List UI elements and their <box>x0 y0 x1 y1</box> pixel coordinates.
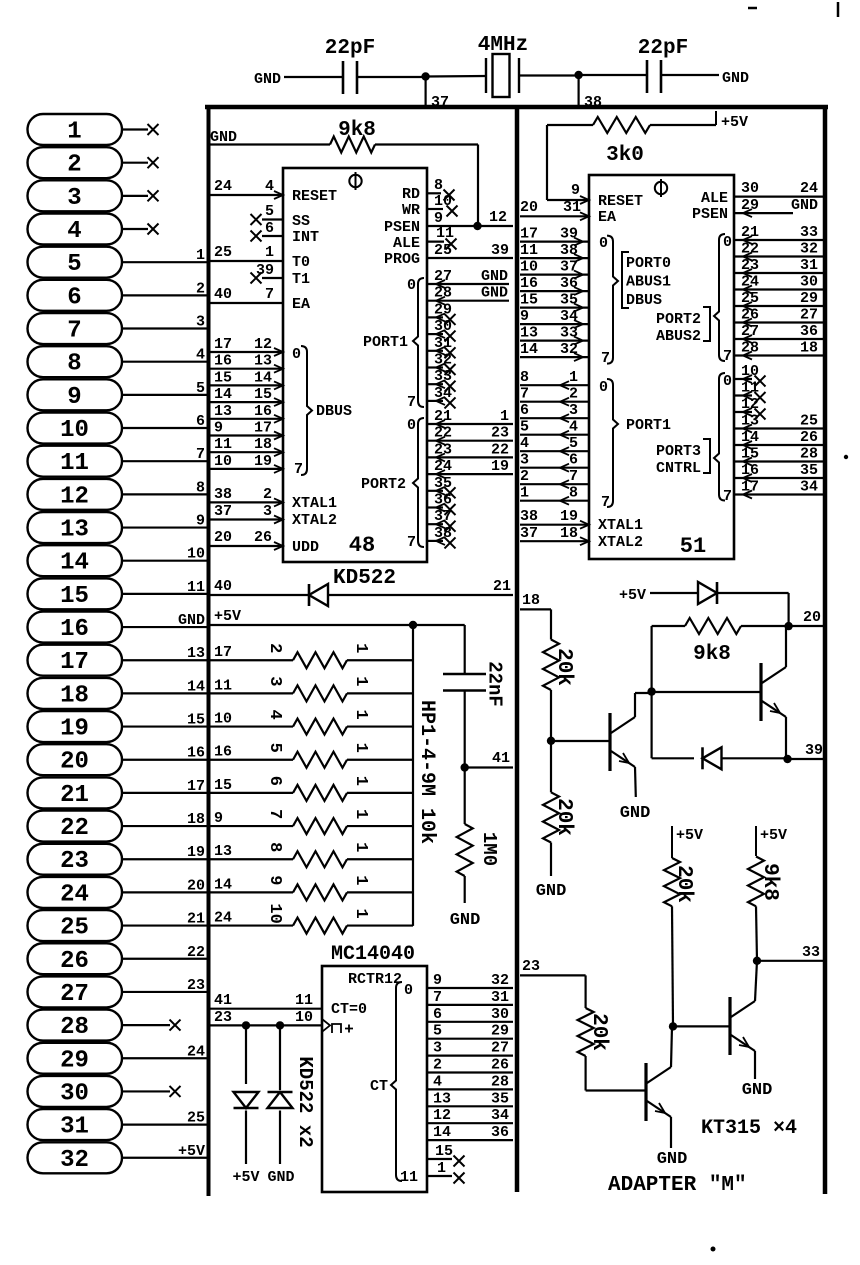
stub U1 RD pin8 n/c <box>427 192 441 194</box>
svg-text:40: 40 <box>214 286 232 303</box>
svg-text:RESET: RESET <box>292 188 337 205</box>
wire R9 to node 33 <box>756 906 757 961</box>
wire node37 to crystal <box>426 75 486 78</box>
IC U1 PORT1 brace <box>413 278 424 407</box>
connector XS1 pin 15 <box>28 578 208 610</box>
wire +5V rail to C3 <box>413 624 465 626</box>
resistor RN1.1 10k <box>293 652 347 668</box>
junction Q1 collector node <box>647 687 655 695</box>
wire node41 to separator <box>465 766 513 768</box>
svg-text:4: 4 <box>433 1073 442 1090</box>
svg-text:18: 18 <box>522 592 540 609</box>
wire U2 PORT3.5 pin15 to net28 <box>734 460 823 462</box>
svg-text:14: 14 <box>214 876 232 893</box>
svg-text:7: 7 <box>723 348 732 365</box>
wire net11 to RN1 pin 3 <box>210 692 293 694</box>
svg-text:PSEN: PSEN <box>384 219 420 236</box>
svg-text:RCTR12: RCTR12 <box>348 971 402 988</box>
wire R5 to GND <box>550 843 552 877</box>
resistor RN1.3 10k <box>293 719 347 735</box>
connector XS1 pin 19 <box>28 711 208 743</box>
svg-text:9k8: 9k8 <box>758 863 781 901</box>
svg-text:39: 39 <box>560 226 578 243</box>
svg-text:GND: GND <box>178 612 205 629</box>
stub U1 T1 pin39 n/c <box>262 277 283 279</box>
svg-text:10: 10 <box>520 259 538 276</box>
svg-text:PSEN: PSEN <box>692 206 728 223</box>
stub U1 WR pin10 n/c <box>427 208 443 210</box>
stub U3 CT.10 pin15 n/c <box>427 1158 452 1160</box>
connector XS1 pin 23 <box>28 844 208 876</box>
junction PSEN/9k8 node <box>473 222 481 230</box>
resistor R4 20k <box>543 640 559 691</box>
svg-text:21: 21 <box>493 578 511 595</box>
svg-text:6: 6 <box>433 1006 442 1023</box>
connector XS1 pin 18 <box>28 678 208 710</box>
svg-text:8: 8 <box>196 479 205 496</box>
svg-text:28: 28 <box>60 1014 89 1041</box>
svg-text:20k: 20k <box>672 865 695 903</box>
wire net14 to U2 PORT0.7 pin32 <box>520 356 589 358</box>
svg-text:36: 36 <box>434 492 452 509</box>
svg-text:15: 15 <box>435 1143 453 1160</box>
wire C2 to GND <box>661 74 719 76</box>
svg-text:6: 6 <box>196 413 205 430</box>
stub U1 PORT2.6 pin37 n/c <box>427 523 443 525</box>
wire net20 to U2 EA pin31 <box>520 215 589 217</box>
svg-text:30: 30 <box>60 1080 89 1107</box>
svg-text:7: 7 <box>265 809 284 819</box>
wire U3 CT.7 pin13 to net35 <box>427 1105 513 1107</box>
wire R4 to base node <box>550 690 552 741</box>
diode VD1 KD522 <box>309 584 328 606</box>
svg-text:21: 21 <box>434 408 452 425</box>
wire +5V rail <box>210 624 413 626</box>
svg-text:CT=0: CT=0 <box>331 1001 367 1018</box>
svg-text:17: 17 <box>520 226 538 243</box>
svg-text:0: 0 <box>407 277 416 294</box>
svg-text:23: 23 <box>187 977 205 994</box>
svg-text:25: 25 <box>60 915 89 942</box>
connector XS1 pin 24 <box>28 877 208 909</box>
svg-text:20: 20 <box>60 749 89 776</box>
transistor Q2 KT315 <box>759 663 762 721</box>
svg-text:36: 36 <box>800 323 818 340</box>
svg-text:MC14040: MC14040 <box>331 943 415 966</box>
svg-text:27: 27 <box>60 981 89 1008</box>
svg-text:11: 11 <box>187 579 205 596</box>
svg-text:18: 18 <box>60 682 89 709</box>
frame left border <box>207 105 211 1196</box>
wire Q1 emitter down <box>634 767 637 797</box>
scan speck bottom <box>711 1247 716 1252</box>
wire RN1.3 to common bus <box>347 725 413 727</box>
wire net14 to U1 DBUS3 pin15 <box>210 401 283 403</box>
svg-text:36: 36 <box>560 275 578 292</box>
svg-text:16: 16 <box>60 616 89 643</box>
IC U2 PORT2 brace <box>714 234 725 361</box>
wire RN1.7 to common bus <box>347 858 413 860</box>
svg-text:1: 1 <box>67 119 81 146</box>
svg-text:24: 24 <box>187 1043 205 1060</box>
wire U3 CT.6 pin4 to net28 <box>427 1088 513 1090</box>
svg-text:13: 13 <box>520 325 538 342</box>
svg-text:30: 30 <box>741 180 759 197</box>
connector XS1 pin 29 <box>28 1043 208 1075</box>
svg-text:9k8: 9k8 <box>693 643 731 666</box>
svg-text:1: 1 <box>196 247 205 264</box>
resistor R9 9k8 <box>748 857 764 907</box>
svg-text:13: 13 <box>214 843 232 860</box>
wire net16 to U2 PORT0.3 pin36 <box>520 290 589 292</box>
wire U3 CT.1 pin7 to net31 <box>427 1004 513 1006</box>
svg-text:ABUS2: ABUS2 <box>656 328 701 345</box>
svg-text:29: 29 <box>800 290 818 307</box>
wire collector node up to 9k8 <box>650 626 652 692</box>
svg-text:10: 10 <box>187 546 205 563</box>
svg-text:33: 33 <box>434 368 452 385</box>
wire net23 from separator <box>520 974 586 976</box>
svg-text:0: 0 <box>404 982 413 999</box>
svg-text:9: 9 <box>265 875 284 885</box>
svg-text:3: 3 <box>265 676 284 686</box>
svg-text:41: 41 <box>214 992 232 1009</box>
svg-text:32: 32 <box>60 1147 89 1174</box>
wire +5V to VD4 <box>650 592 698 594</box>
svg-text:16: 16 <box>741 462 759 479</box>
wire net13 to U2 PORT0.6 pin33 <box>520 340 589 342</box>
svg-text:1: 1 <box>520 485 529 502</box>
resistor R5 20k <box>543 792 559 842</box>
wire VD1 to net21 <box>328 594 513 596</box>
svg-text:KD522 x2: KD522 x2 <box>294 1056 316 1147</box>
wire R6 to node 20 <box>741 625 789 627</box>
wire U2 PORT2.5 pin26 to net27 <box>734 321 823 323</box>
wire VD5 to node39 <box>722 757 788 759</box>
svg-text:9: 9 <box>196 513 205 530</box>
svg-text:31: 31 <box>800 257 818 274</box>
svg-text:16: 16 <box>214 744 232 761</box>
IC U2 PORT1 brace <box>607 379 618 507</box>
wire base node to Q1 <box>551 740 610 742</box>
stub U1 SS pin5 n/c <box>262 218 283 220</box>
svg-text:ABUS1: ABUS1 <box>626 274 671 291</box>
wire node37 drop to box <box>425 77 427 107</box>
svg-text:30: 30 <box>491 1006 509 1023</box>
svg-text:12: 12 <box>741 396 759 413</box>
svg-text:11: 11 <box>295 992 313 1009</box>
wire U3 CT.5 pin2 to net26 <box>427 1071 513 1073</box>
wire net2 to U2 PORT1.6 pin7 <box>520 483 589 485</box>
svg-text:11: 11 <box>60 450 89 477</box>
svg-text:26: 26 <box>800 429 818 446</box>
wire Q2 emitter to node39 <box>785 717 787 759</box>
svg-text:9: 9 <box>433 972 442 989</box>
svg-text:36: 36 <box>491 1124 509 1141</box>
net +5V tick (R3) <box>715 111 717 125</box>
svg-text:4: 4 <box>520 435 529 452</box>
svg-text:EA: EA <box>598 209 616 226</box>
svg-text:33: 33 <box>800 224 818 241</box>
svg-text:7: 7 <box>294 461 303 478</box>
svg-text:WR: WR <box>402 202 420 219</box>
wire net20 to U1 UDD pin26 <box>210 545 283 547</box>
svg-text:18: 18 <box>187 811 205 828</box>
svg-text:35: 35 <box>434 475 452 492</box>
svg-text:7: 7 <box>433 989 442 1006</box>
stub U1 PORT2.5 pin36 n/c <box>427 506 443 508</box>
IC U2 clock symbol phi <box>655 182 667 194</box>
wire U2 PORT2.3 pin24 to net30 <box>734 288 823 290</box>
svg-text:1: 1 <box>351 809 370 819</box>
svg-text:26: 26 <box>60 948 89 975</box>
svg-text:34: 34 <box>560 308 578 325</box>
svg-text:6: 6 <box>569 452 578 469</box>
svg-text:26: 26 <box>254 529 272 546</box>
diode VD3 KD522 to GND <box>268 1092 293 1108</box>
junction node 38 <box>574 71 582 79</box>
wire to VD5 <box>652 757 694 759</box>
svg-text:4: 4 <box>196 347 205 364</box>
wire net11 to U1 DBUS6 pin18 <box>210 451 283 453</box>
svg-text:10: 10 <box>265 903 284 923</box>
wire net6 to U2 PORT1.2 pin3 <box>520 417 589 419</box>
svg-text:27: 27 <box>741 323 759 340</box>
IC U2 8051 body <box>589 175 734 559</box>
wire net24 to U1 RESET pin4 <box>210 194 283 196</box>
svg-text:18: 18 <box>800 340 818 357</box>
svg-text:20: 20 <box>187 877 205 894</box>
svg-text:17: 17 <box>187 778 205 795</box>
svg-text:25: 25 <box>800 413 818 430</box>
wire U3 CT.0 pin9 to net32 <box>427 987 513 989</box>
svg-text:INT: INT <box>292 229 319 246</box>
svg-text:6: 6 <box>67 284 81 311</box>
IC U2 PORT2 bracket <box>703 307 710 341</box>
svg-text:RD: RD <box>402 186 420 203</box>
resistor RN1.9 10k <box>293 918 347 934</box>
svg-text:20k: 20k <box>587 1013 610 1051</box>
stub U2 PORT3.0 pin10 n/c <box>734 378 752 380</box>
transistor Q1 KT315 <box>608 713 611 771</box>
junction node 39 <box>783 755 791 763</box>
wire net24 to RN1 pin 10 <box>210 924 293 926</box>
svg-text:ADAPTER "M": ADAPTER "M" <box>608 1174 747 1197</box>
svg-text:33: 33 <box>802 944 820 961</box>
svg-text:20k: 20k <box>552 648 575 686</box>
svg-text:1: 1 <box>351 743 370 753</box>
svg-text:HP1-4-9M 10k: HP1-4-9M 10k <box>415 700 438 844</box>
svg-text:19: 19 <box>254 453 272 470</box>
svg-text:1: 1 <box>437 1160 446 1177</box>
svg-text:3: 3 <box>520 452 529 469</box>
svg-text:26: 26 <box>741 307 759 324</box>
svg-text:20k: 20k <box>552 798 575 836</box>
wire 9k8 left lead <box>652 625 685 627</box>
svg-text:+5V: +5V <box>214 608 241 625</box>
connector XS1 pin 21 <box>28 777 208 809</box>
svg-text:39: 39 <box>491 242 509 259</box>
junction Q1 base node <box>547 737 555 745</box>
wire U2 PORT2.0 pin21 to net33 <box>734 239 823 241</box>
svg-text:15: 15 <box>214 369 232 386</box>
wire RN1.4 to common bus <box>347 759 413 761</box>
svg-text:28: 28 <box>741 340 759 357</box>
wire U1 PSEN pin9 to node 12 <box>427 225 513 227</box>
resistor RN1.6 10k <box>293 818 347 834</box>
IC U1 clock symbol phi <box>349 175 361 187</box>
stub U3 CT.11 pin1 n/c <box>427 1175 452 1177</box>
wire U3 CT.4 pin3 to net27 <box>427 1054 513 1056</box>
resistor RN1.5 10k <box>293 785 347 801</box>
svg-text:22pF: 22pF <box>638 37 688 60</box>
wire R4 to R5 <box>550 741 552 793</box>
svg-text:34: 34 <box>491 1107 509 1124</box>
wire U3 CT.2 pin6 to net30 <box>427 1021 513 1023</box>
svg-text:23: 23 <box>434 441 452 458</box>
svg-text:24: 24 <box>60 881 89 908</box>
svg-text:15: 15 <box>254 386 272 403</box>
connector XS1 pin 2 <box>28 147 159 179</box>
svg-text:37: 37 <box>214 503 232 520</box>
svg-text:28: 28 <box>434 285 452 302</box>
wire VD4 to node 20 <box>717 592 789 594</box>
svg-text:11: 11 <box>400 1169 418 1186</box>
wire U3 CT.9 pin14 to net36 <box>427 1139 513 1141</box>
wire U2 ALE pin30 to net24 <box>734 196 823 198</box>
wire net10 to U1 DBUS7 pin19 <box>210 468 283 470</box>
svg-text:8: 8 <box>434 177 443 194</box>
IC U1 DBUS brace <box>301 346 312 475</box>
svg-text:21: 21 <box>187 911 205 928</box>
connector XS1 pin 12 <box>28 479 208 511</box>
svg-text:24: 24 <box>434 458 452 475</box>
svg-text:29: 29 <box>491 1023 509 1040</box>
wire U2 PORT2.2 pin23 to net31 <box>734 272 823 274</box>
svg-text:9: 9 <box>520 308 529 325</box>
svg-text:7: 7 <box>520 386 529 403</box>
svg-text:KT315 ×4: KT315 ×4 <box>701 1117 797 1140</box>
wire net3 to U2 PORT1.5 pin6 <box>520 467 589 469</box>
svg-text:CT: CT <box>370 1078 388 1095</box>
wire net9 to RN1 pin 7 <box>210 825 293 827</box>
svg-text:2: 2 <box>196 280 205 297</box>
svg-text:25: 25 <box>214 244 232 261</box>
svg-text:8: 8 <box>520 369 529 386</box>
svg-text:23: 23 <box>522 958 540 975</box>
wire riser to R3 <box>547 124 593 126</box>
svg-text:32: 32 <box>560 341 578 358</box>
svg-text:15: 15 <box>741 446 759 463</box>
svg-text:10: 10 <box>214 453 232 470</box>
svg-text:GND: GND <box>450 911 481 930</box>
svg-text:+5V: +5V <box>619 587 646 604</box>
svg-text:15: 15 <box>60 583 89 610</box>
svg-text:12: 12 <box>433 1107 451 1124</box>
svg-text:T1: T1 <box>292 271 310 288</box>
svg-text:0: 0 <box>599 235 608 252</box>
svg-text:23: 23 <box>491 425 509 442</box>
wire net7 to U2 PORT1.1 pin2 <box>520 401 589 403</box>
connector XS1 pin 8 <box>28 346 208 378</box>
svg-text:24: 24 <box>214 910 232 927</box>
wire net38 to U2 XTAL1 pin19 <box>520 524 589 526</box>
wire RN1.9 to common bus <box>347 924 413 926</box>
wire net18 drop <box>550 609 552 639</box>
svg-text:ALE: ALE <box>701 190 728 207</box>
svg-text:GND: GND <box>742 1081 773 1100</box>
svg-text:17: 17 <box>254 420 272 437</box>
junction node 20 <box>784 622 792 630</box>
svg-text:7: 7 <box>723 488 732 505</box>
svg-text:21: 21 <box>741 224 759 241</box>
wire net10 to U2 PORT0.2 pin37 <box>520 274 589 276</box>
svg-text:0: 0 <box>723 234 732 251</box>
svg-text:37: 37 <box>434 508 452 525</box>
svg-text:17: 17 <box>214 336 232 353</box>
resistor R7 20k <box>578 1008 594 1056</box>
svg-text:GND: GND <box>791 197 818 214</box>
svg-text:20: 20 <box>803 609 821 626</box>
capacitor C3 22nF <box>443 673 486 676</box>
svg-text:5: 5 <box>433 1023 442 1040</box>
connector XS1 pin 4 <box>28 214 159 246</box>
scan speck right edge <box>844 455 848 459</box>
svg-text:GND: GND <box>267 1169 294 1186</box>
IC U1 PORT2 brace <box>413 418 424 547</box>
svg-text:24: 24 <box>800 180 818 197</box>
svg-text:31: 31 <box>60 1114 89 1141</box>
net +5V (R8) <box>671 826 673 858</box>
svg-text:34: 34 <box>800 479 818 496</box>
svg-text:25: 25 <box>741 290 759 307</box>
diode VD2 KD522 to +5V <box>234 1092 259 1108</box>
wire U2 PORT2.6 pin27 to net36 <box>734 338 823 340</box>
scan mark top right 1 <box>748 7 757 10</box>
svg-text:14: 14 <box>741 429 759 446</box>
wire RESET riser <box>546 125 548 200</box>
svg-text:22pF: 22pF <box>325 37 375 60</box>
wire C3 to node 41 <box>464 691 466 768</box>
svg-text:11: 11 <box>214 677 232 694</box>
frame top border <box>205 105 828 110</box>
svg-text:3: 3 <box>196 314 205 331</box>
svg-text:9k8: 9k8 <box>338 119 376 142</box>
transistor Q4 KT315 <box>728 997 731 1055</box>
svg-text:38: 38 <box>434 525 452 542</box>
connector XS1 pin 6 <box>28 280 208 312</box>
svg-text:2: 2 <box>433 1057 442 1074</box>
svg-text:EA: EA <box>292 296 310 313</box>
junction clock/VD2 <box>242 1021 250 1029</box>
svg-text:5: 5 <box>520 419 529 436</box>
svg-text:3: 3 <box>67 185 81 212</box>
svg-text:15: 15 <box>214 777 232 794</box>
wire +5V to C3 top <box>464 625 466 674</box>
wire C1 to node 37 <box>357 76 426 78</box>
svg-text:1: 1 <box>351 908 370 918</box>
junction +5V rail / RN1 bus <box>409 621 417 629</box>
wire R1 to PSEN drop <box>375 143 478 145</box>
svg-text:19: 19 <box>560 508 578 525</box>
wire U2 PSEN pin29 to GND <box>734 212 793 214</box>
wire VD3 cathode drop <box>279 1025 281 1090</box>
svg-text:12: 12 <box>489 209 507 226</box>
connector XS1 pin 31 <box>28 1109 208 1141</box>
svg-text:8: 8 <box>569 485 578 502</box>
resistor R1 9k8 <box>330 137 375 153</box>
resistor RN1.8 10k <box>293 884 347 900</box>
